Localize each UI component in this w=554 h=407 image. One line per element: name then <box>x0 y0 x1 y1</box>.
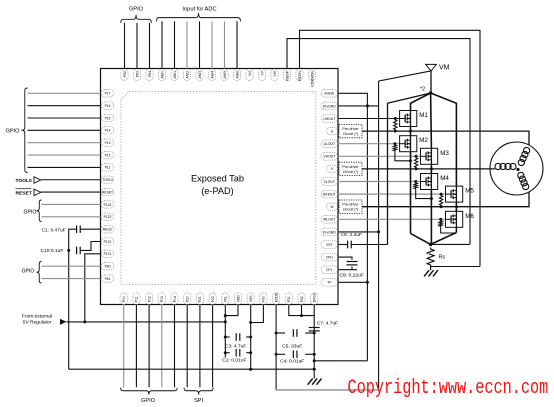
wire M1 source to phase U node <box>410 127 412 132</box>
svg-text:COMMON: COMMON <box>310 70 314 86</box>
wire left GPIO pin P15 <box>28 117 101 119</box>
transistor M1 (U high side) <box>400 111 417 127</box>
wire top ADC pin ANI3 <box>199 21 201 68</box>
svg-text:ANI0: ANI0 <box>160 71 164 79</box>
svg-text:P21: P21 <box>198 296 202 302</box>
node Rs top <box>429 243 433 247</box>
svg-text:P123: P123 <box>104 215 112 219</box>
wire left GPIO pin P12 <box>28 154 101 156</box>
svg-text:CPL: CPL <box>326 268 333 272</box>
svg-text:DrvGND: DrvGND <box>323 104 336 108</box>
svg-text:P20: P20 <box>186 296 190 302</box>
wire P31,P32,EVSS joined <box>289 305 314 316</box>
resistor Rs (current sense) <box>427 248 434 267</box>
svg-text:EVSS: EVSS <box>313 293 317 303</box>
wire funnel left (VST rail) <box>388 93 431 245</box>
svg-text:ANI1: ANI1 <box>173 71 177 79</box>
svg-text:P63: P63 <box>135 71 139 77</box>
wire EVDD rail down to gray return <box>275 305 277 390</box>
wire bottom GPIO pin P11 <box>135 305 137 388</box>
svg-text:UHOUT: UHOUT <box>323 117 335 121</box>
wire funnel to M5 drain rail <box>431 93 457 186</box>
wire AGND rail to C4 node <box>314 360 367 362</box>
svg-text:Circuit (*): Circuit (*) <box>343 132 358 136</box>
wire top GPIO pin P63 <box>136 23 138 69</box>
wire left GPIO pin P61 <box>42 278 101 280</box>
wire phase W to motor <box>456 192 529 207</box>
wire Rs top sense to REGP loop <box>431 243 470 245</box>
svg-text:C3: 4.7uF: C3: 4.7uF <box>225 344 246 350</box>
svg-text:*2: *2 <box>420 87 425 93</box>
svg-text:AGND: AGND <box>324 92 334 96</box>
svg-text:GPIO: GPIO <box>141 398 156 404</box>
svg-text:M1: M1 <box>419 112 428 119</box>
svg-text:P15: P15 <box>105 116 111 120</box>
svg-text:REGP: REGP <box>285 70 289 80</box>
wire bottom GPIO pin P10 <box>123 305 125 388</box>
svg-text:C10:0.1uF: C10:0.1uF <box>41 248 64 254</box>
transistor M5 (W high side) <box>446 186 463 202</box>
svg-text:P30: P30 <box>262 296 266 302</box>
capacitor C7 4.7uF <box>309 327 320 329</box>
svg-text:ANI3: ANI3 <box>198 71 202 79</box>
ground symbol (Rs) <box>424 270 429 276</box>
wire 5V supply line <box>67 321 226 323</box>
svg-text:P32: P32 <box>300 296 304 302</box>
wire ULOUT gate line to M2 <box>338 143 400 145</box>
svg-text:P22: P22 <box>211 296 215 302</box>
svg-text:P11: P11 <box>105 166 111 170</box>
wire top ADC pin ANI6 <box>236 21 238 68</box>
brace bottom SPI group <box>184 388 213 395</box>
svg-text:Exposed Tab: Exposed Tab <box>191 174 244 184</box>
wire phase V to motor <box>431 168 494 170</box>
svg-text:P16: P16 <box>105 104 111 108</box>
svg-text:REGC: REGC <box>103 227 113 231</box>
input symbol RESET <box>34 189 41 196</box>
wire C10 left lead / ground rail down to bus <box>68 250 70 369</box>
capacitor C9 0.22uF (charge pump) <box>347 261 358 263</box>
svg-text:VV: VV <box>260 70 264 75</box>
svg-text:Pre-driver: Pre-driver <box>342 165 359 169</box>
wire VST line with C6 <box>338 244 348 246</box>
svg-text:P11: P11 <box>135 296 139 302</box>
brace Input for ADC group <box>157 13 241 22</box>
wire VSS rail down to ground bus <box>250 305 252 370</box>
wire REGN loop (top pin to Rs bottom sense) <box>300 30 481 266</box>
svg-text:VM: VM <box>439 65 450 72</box>
ground symbol (bottom bus) <box>308 379 313 385</box>
svg-text:Pre-driver: Pre-driver <box>342 127 359 131</box>
svg-text:VW: VW <box>273 70 277 76</box>
wire M4 source rail down <box>430 190 432 245</box>
svg-text:C4: 0.01uF: C4: 0.01uF <box>280 359 304 365</box>
wire P30 jog to VSS rail <box>251 305 264 323</box>
motor winding W (lower right) <box>518 172 524 178</box>
exposed pad (e-PAD) dashed outline <box>121 92 316 285</box>
svg-text:Circuit (*): Circuit (*) <box>343 170 358 174</box>
wire Rs to ground <box>430 267 432 271</box>
transistor M6 (W low side) <box>455 207 457 212</box>
wire VM diagonal to DrvGND riser top <box>379 71 431 81</box>
svg-text:VLOUT: VLOUT <box>324 180 335 184</box>
svg-text:VSS: VSS <box>249 295 253 303</box>
svg-text:M2: M2 <box>419 137 428 144</box>
wire VDD pin jog to VCL rail <box>225 305 238 316</box>
svg-text:P64: P64 <box>148 71 152 77</box>
wire top ADC pin ANI0 <box>161 21 163 68</box>
wire top ADC pin ANI5 <box>224 21 226 68</box>
svg-text:P14: P14 <box>173 296 177 302</box>
wire top ADC pin ANI2 <box>186 21 188 68</box>
svg-text:ANI2: ANI2 <box>185 71 189 79</box>
svg-text:P12: P12 <box>105 153 111 157</box>
wire phase U line <box>338 130 339 132</box>
wire bottom GPIO pin P14 <box>174 305 176 388</box>
wire funnel to M1 drain rail <box>411 93 431 111</box>
svg-text:C9: 0.22uF: C9: 0.22uF <box>340 273 364 279</box>
svg-text:From external: From external <box>22 314 52 320</box>
wire TP to AGND rail <box>338 281 367 283</box>
svg-text:P14: P14 <box>105 129 111 133</box>
svg-text:DrvGND: DrvGND <box>323 230 336 234</box>
svg-text:VCL: VCL <box>224 296 228 303</box>
svg-text:Pre-driver: Pre-driver <box>342 203 359 207</box>
svg-text:M6: M6 <box>465 213 474 220</box>
svg-text:ULOUT: ULOUT <box>324 142 336 146</box>
wire WHOUT gate line to M5 <box>338 193 446 195</box>
resistor M6 gate pulldown <box>439 219 442 228</box>
svg-text:Circuit (*): Circuit (*) <box>343 208 358 212</box>
capacitor C2 0.01uF <box>225 352 230 354</box>
wire bus stub to ground <box>313 369 315 378</box>
svg-text:ANI6: ANI6 <box>235 71 239 79</box>
wire EVSS rail down through C7 <box>313 316 315 370</box>
resistor M1 gate pulldown <box>394 119 397 132</box>
svg-text:P17: P17 <box>105 92 111 96</box>
svg-text:M5: M5 <box>465 188 474 195</box>
power symbol VM <box>426 64 437 71</box>
microcontroller U1 body <box>101 69 339 305</box>
wire left GPIO pin P14 <box>28 129 101 131</box>
wire DrvGND gray return (EVDD rail to right riser) <box>276 389 379 391</box>
wire left GPIO pin P60 <box>42 265 101 267</box>
svg-text:C2: 0.01uF: C2: 0.01uF <box>222 358 246 364</box>
svg-text:(e-PAD): (e-PAD) <box>201 186 234 196</box>
svg-text:ANI5: ANI5 <box>223 71 227 79</box>
svg-text:5V Regulator: 5V Regulator <box>23 320 52 326</box>
capacitor C5 33uF <box>276 332 285 334</box>
svg-text:REGN: REGN <box>298 70 302 80</box>
svg-text:C6: 2.2uF: C6: 2.2uF <box>341 232 362 238</box>
brace left GPIO group (7 pins) <box>22 88 28 173</box>
wire source funnel left <box>411 233 431 244</box>
resistor M4 gate pulldown <box>414 182 417 191</box>
pre-driver circuit block U (dashed) <box>339 124 362 137</box>
pre-driver circuit block V (dashed) <box>339 162 362 175</box>
svg-text:P60: P60 <box>105 265 111 269</box>
svg-text:P31: P31 <box>287 296 291 302</box>
wire bottom GPIO pin P13 <box>161 305 163 388</box>
svg-text:GPIO: GPIO <box>24 210 37 216</box>
svg-text:SPI: SPI <box>194 398 203 404</box>
wire funnel to M3 drain rail <box>430 93 433 148</box>
wire source funnel right <box>431 233 457 245</box>
svg-text:ANI4: ANI4 <box>210 71 214 79</box>
svg-text:TOOL0: TOOL0 <box>102 178 113 182</box>
transistor M2 (U low side) <box>410 131 412 136</box>
wire M6 source rail down <box>455 227 457 232</box>
wire VM to node <box>430 71 432 93</box>
svg-text:GPIO: GPIO <box>22 269 35 275</box>
wire bottom SPI pin P21 <box>199 305 201 388</box>
svg-text:EVDD: EVDD <box>274 292 278 302</box>
svg-text:VST: VST <box>326 243 333 247</box>
wire VCL rail down <box>224 305 226 358</box>
brace left GPIO group (lower 2 pins) <box>37 262 42 284</box>
wire M2 source rail down <box>410 152 412 234</box>
svg-text:VU: VU <box>248 70 252 75</box>
svg-text:RESET: RESET <box>16 191 32 197</box>
capacitor C6 2.2uF <box>347 241 349 249</box>
svg-text:P122: P122 <box>104 240 112 244</box>
resistor M2 gate pulldown <box>393 144 396 153</box>
wire C1 left lead to ground rail <box>69 229 77 250</box>
wire left GPIO pin P13 <box>28 142 101 144</box>
motor M (3-phase BLDC) <box>490 142 543 195</box>
wire DrvGND riser x=378.6 <box>378 81 380 390</box>
svg-text:TP: TP <box>327 281 332 285</box>
copyright watermark <box>348 378 549 400</box>
wire top ADC pin ANI1 <box>174 21 176 68</box>
wire phase V line <box>338 168 339 170</box>
wire DrvGND (lower) to riser <box>338 231 379 233</box>
svg-text:WHOUT: WHOUT <box>323 193 336 197</box>
wire left GPIO pin P16 <box>28 105 101 107</box>
motor star point <box>516 168 519 171</box>
svg-text:P13: P13 <box>160 296 164 302</box>
wire TOOL0 <box>41 179 101 181</box>
motor winding V (left) <box>495 163 501 169</box>
input arrow 5V <box>60 319 67 325</box>
motor winding U (upper right) <box>518 159 524 165</box>
wire left GPIO pin P124 <box>42 203 101 205</box>
wire top GPIO pin P62 <box>124 23 126 69</box>
wire AGND to vertical rail <box>338 93 367 361</box>
wire CPH to flying cap <box>338 257 352 260</box>
wire top GPIO pin P64 <box>149 23 151 69</box>
svg-text:P124: P124 <box>104 203 112 207</box>
wire P121 to 5V line <box>85 254 101 322</box>
wire M3 source to phase V node <box>430 164 432 169</box>
capacitor C4 0.01uF <box>276 353 285 355</box>
svg-text:CPH: CPH <box>326 256 334 260</box>
wire UHOUT gate line to M1 <box>338 118 400 120</box>
svg-text:P121: P121 <box>104 252 112 256</box>
wire CPL to flying cap <box>338 269 357 271</box>
svg-text:RESET: RESET <box>102 190 113 194</box>
right pin column of U1 <box>321 90 338 98</box>
svg-text:GPIO: GPIO <box>129 7 144 13</box>
svg-text:P13: P13 <box>105 141 111 145</box>
capacitor C3 4.7uF <box>225 336 230 338</box>
transistor M4 (V low side) <box>430 169 432 174</box>
input symbol TOOL0 <box>34 177 41 184</box>
svg-text:C1: 0.47uF: C1: 0.47uF <box>42 227 66 233</box>
brace left GPIO group (2 pins) <box>37 200 42 222</box>
wire top ADC pin ANI4 <box>211 21 213 68</box>
wire C10 right lead to pin P122 <box>80 242 100 251</box>
wire left GPIO pin P17 <box>28 92 101 94</box>
brace bottom GPIO group <box>121 388 178 395</box>
svg-text:M4: M4 <box>440 175 449 182</box>
wire VHOUT gate line to M3 <box>338 155 421 157</box>
svg-text:GPIO: GPIO <box>6 129 21 135</box>
svg-text:Copyright:www.eccn.com: Copyright:www.eccn.com <box>348 378 549 400</box>
svg-text:M3: M3 <box>440 150 449 157</box>
wire phase W line <box>338 206 339 208</box>
wire bottom SPI pin P22 <box>212 305 214 388</box>
brace top GPIO group <box>121 15 152 23</box>
svg-text:VHOUT: VHOUT <box>323 155 335 159</box>
svg-text:P62: P62 <box>123 71 127 77</box>
transistor M3 (V high side) <box>421 148 438 164</box>
bottom pin row of U1 <box>120 293 127 305</box>
svg-text:Input for ADC: Input for ADC <box>182 7 216 13</box>
svg-text:WLOUT: WLOUT <box>323 218 335 222</box>
wire bottom SPI pin P20 <box>186 305 188 388</box>
wire RESET <box>41 191 101 193</box>
wire VLOUT gate line to M4 <box>338 181 421 183</box>
pre-driver circuit block W (dashed) <box>339 200 362 213</box>
wire left GPIO pin P11 <box>28 166 101 168</box>
resistor M5 gate pulldown <box>439 194 442 207</box>
svg-text:P10: P10 <box>122 296 126 302</box>
svg-text:VDD: VDD <box>236 295 240 303</box>
wire phase U to motor <box>411 131 530 145</box>
wire Rs bottom sense to REGN loop <box>431 266 480 268</box>
svg-text:C5: 33uF: C5: 33uF <box>282 344 302 350</box>
wire WLOUT gate line to M6 <box>338 218 446 220</box>
wire REGC pin to C1 <box>80 228 100 230</box>
svg-text:TOOL0: TOOL0 <box>16 178 32 184</box>
node VM distribution (*2) <box>429 91 433 95</box>
wire left GPIO pin P123 <box>42 216 101 218</box>
resistor M3 gate pulldown <box>414 156 417 169</box>
svg-text:P12: P12 <box>147 296 151 302</box>
svg-text:C7: 4.7uF: C7: 4.7uF <box>317 320 338 326</box>
wire ground bus <box>69 368 315 370</box>
top pin row of U1 <box>121 69 128 81</box>
wire bottom GPIO pin P12 <box>148 305 150 388</box>
left pin column of U1 <box>101 90 114 97</box>
svg-text:Rs: Rs <box>439 255 446 261</box>
wire M5 source to phase W node <box>455 202 457 207</box>
svg-text:P61: P61 <box>105 277 111 281</box>
wire REGP loop (top pin to Rs top sense) <box>287 39 470 245</box>
wire DrvGND to riser <box>338 105 379 107</box>
